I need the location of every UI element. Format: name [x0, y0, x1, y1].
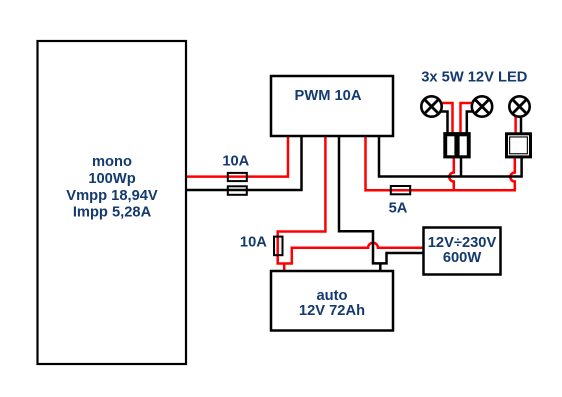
- svg-text:mono: mono: [92, 154, 132, 170]
- svg-text:10A: 10A: [222, 153, 249, 169]
- fuse F1 10A (red panel wire): [228, 173, 247, 181]
- wire: black lamp2 to switch: [467, 112, 473, 134]
- wire: black PWM load- LED black bus: [379, 136, 522, 177]
- wire: black lamp3 to switch: [520, 110, 523, 133]
- battery box: [271, 271, 393, 331]
- wire: red stub to battery plus terminal: [283, 264, 286, 273]
- svg-text:12V÷230V: 12V÷230V: [428, 235, 497, 251]
- lamp LED3: [509, 96, 529, 116]
- svg-text:5A: 5A: [389, 200, 408, 216]
- svg-text:100Wp: 100Wp: [88, 171, 135, 187]
- wire: red PWM battery+ through fuse to battery and inverter: [278, 136, 424, 264]
- svg-text:auto: auto: [316, 288, 347, 304]
- lamp LED1: [421, 96, 441, 116]
- svg-text:10A: 10A: [240, 235, 267, 251]
- svg-text:3x 5W 12V LED: 3x 5W 12V LED: [421, 70, 527, 86]
- switch S1 double (lamps 1+2): [443, 132, 470, 158]
- solar panel box: [38, 41, 187, 364]
- wire: red lamp2 to switch: [461, 103, 473, 133]
- svg-text:PWM 10A: PWM 10A: [295, 88, 362, 104]
- svg-text:12V 72Ah: 12V 72Ah: [299, 303, 365, 319]
- wire: black PWM battery- to battery and inverter: [339, 136, 424, 263]
- wire: red lamp1 to switch: [441, 103, 453, 133]
- svg-text:600W: 600W: [443, 250, 482, 266]
- wire: black branch double switch to black bus: [460, 158, 463, 177]
- wire: black lamp1 to switch: [441, 112, 448, 134]
- wire: black panel negative to PWM: [186, 136, 302, 190]
- fuse F4 10A (vertical, battery wire): [274, 237, 283, 256]
- svg-text:Vmpp 18,94V: Vmpp 18,94V: [66, 188, 158, 204]
- switch S2 single (lamp 3): [505, 132, 532, 158]
- PWM charge controller box: [271, 76, 393, 136]
- wire: red panel positive to PWM: [186, 136, 288, 177]
- wire: red PWM load+ through 5A fuse to LED red bus: [366, 136, 515, 190]
- svg-text:Impp 5,28A: Impp 5,28A: [73, 205, 152, 221]
- fuse F2 (black panel wire): [228, 186, 247, 195]
- wire: red branch double switch to red bus: [449, 158, 454, 190]
- fuse F3 5A (red LED bus): [391, 186, 410, 194]
- inverter box: [424, 228, 501, 275]
- wire: red lamp3 to switch: [514, 110, 517, 133]
- lamp LED2: [472, 96, 492, 116]
- wire: black stub to battery minus terminal: [379, 263, 382, 272]
